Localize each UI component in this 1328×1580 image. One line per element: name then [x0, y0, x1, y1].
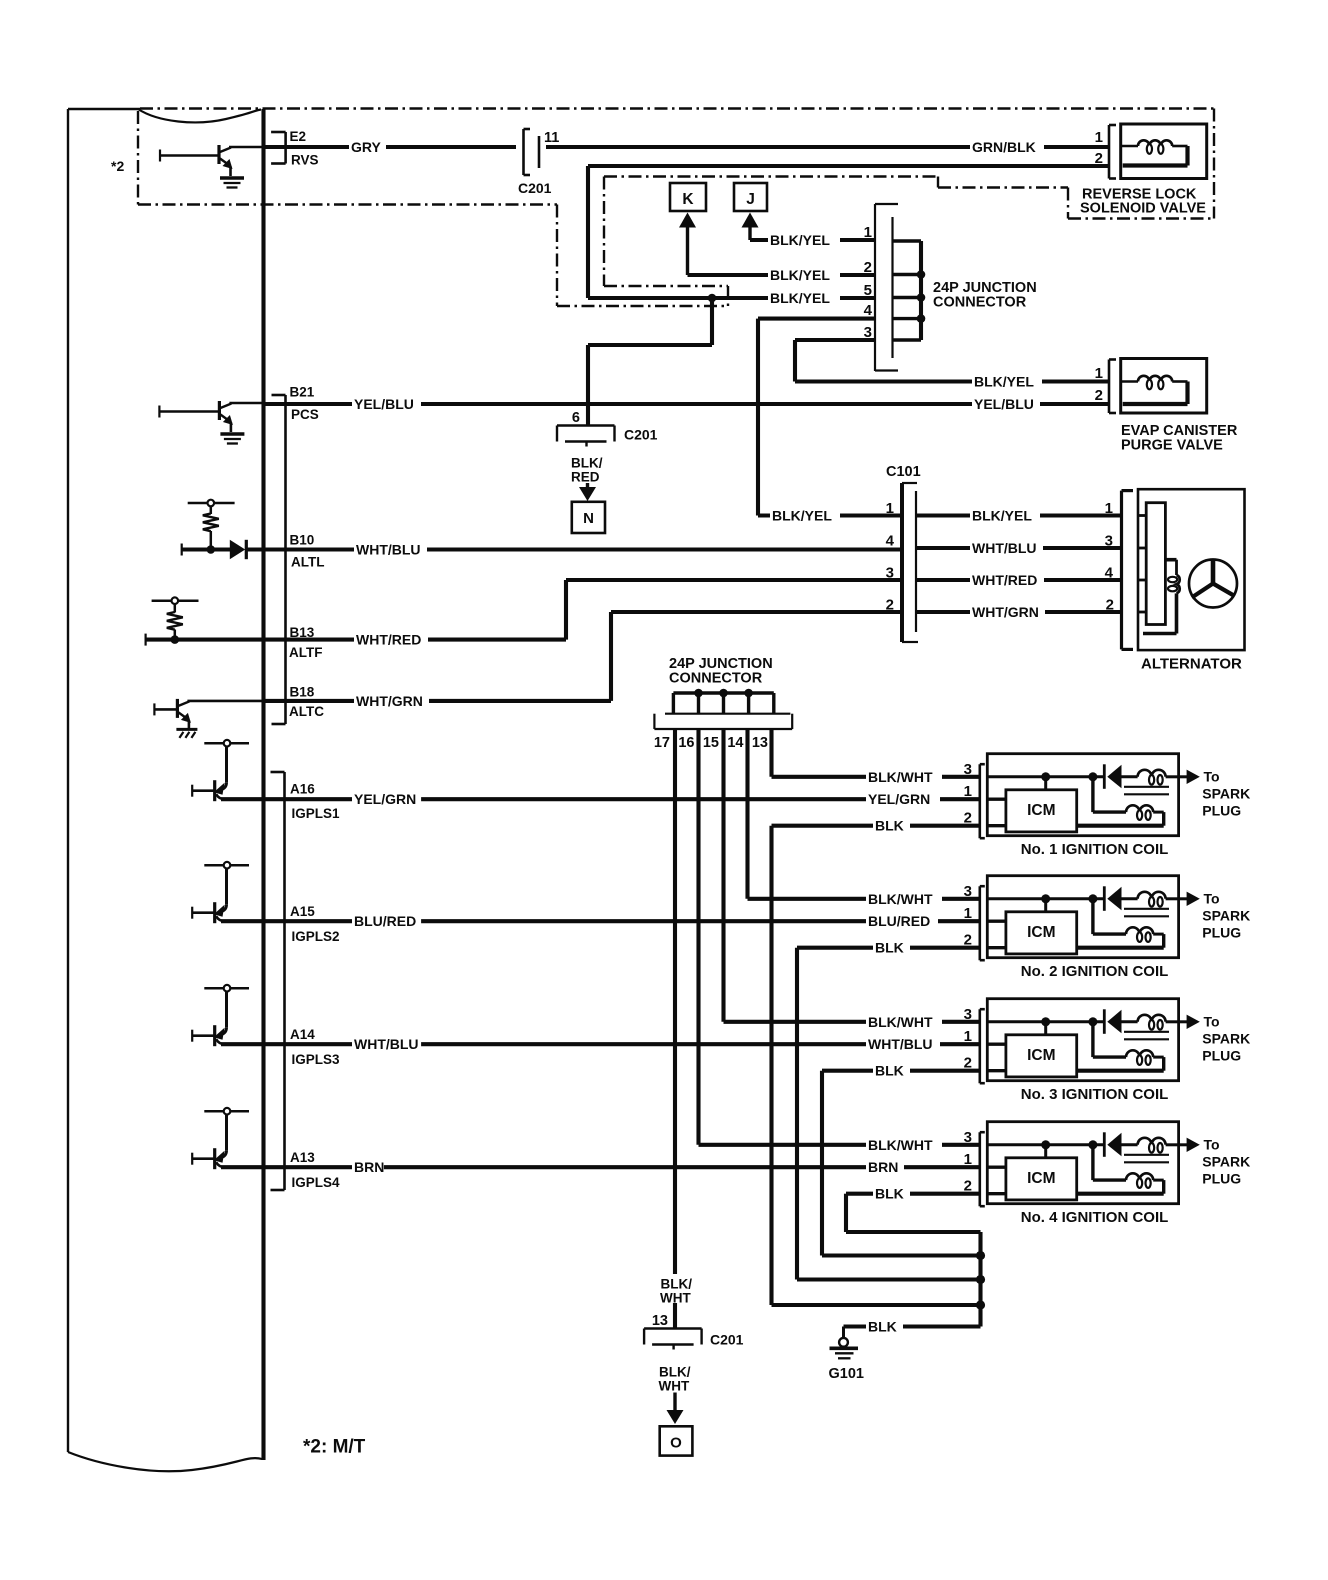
wire GRY / GRN-BLK row E2 to reverse lock solenoid pin 1 — [264, 145, 1110, 149]
svg-text:ICM: ICM — [1027, 1170, 1055, 1187]
dash-dot corridor inner: x=604 down — [603, 177, 605, 287]
resistor network B13/ALTF — [152, 597, 199, 639]
svg-text:PLUG: PLUG — [1202, 802, 1241, 818]
wire BLK coil 3 ground return — [822, 1071, 981, 1256]
svg-text:BLK/WHT: BLK/WHT — [868, 769, 933, 785]
svg-text:N: N — [583, 510, 594, 527]
svg-text:14: 14 — [727, 735, 743, 751]
ICM module coil 3 — [1006, 1035, 1077, 1077]
connector C201 pin 6 (inline) — [557, 426, 615, 447]
label BLU/RED coil 2 pin1 — [866, 912, 938, 930]
alternator rotor (3-spoke wye in circle) — [1189, 560, 1237, 608]
ICM module coil 4 — [1006, 1158, 1077, 1200]
label 24P JUNCTION CONNECTOR (top) — [933, 280, 1037, 311]
EVAP canister purge valve (inductor in box) — [1109, 359, 1207, 414]
label YEL/BLU (left) — [352, 395, 421, 413]
wire WHT/BLU B10 to C101 pin 4 — [182, 544, 902, 556]
ECM right edge (pin column) — [261, 109, 265, 1460]
svg-text:PCS: PCS — [291, 407, 319, 422]
svg-text:11: 11 — [544, 130, 559, 146]
svg-text:GRN/BLK: GRN/BLK — [972, 139, 1036, 155]
coil 3 secondary feed — [1093, 1022, 1126, 1057]
label WHT/BLU coil 3 pin1 — [866, 1035, 940, 1053]
svg-text:1: 1 — [964, 783, 972, 800]
svg-text:B21: B21 — [290, 385, 315, 400]
ECM pin group bracket A16-A13 — [283, 772, 286, 1190]
label BRN coil 4 pin1 — [866, 1158, 904, 1176]
svg-text:PLUG: PLUG — [1202, 1047, 1241, 1063]
label BLK/YEL (pin 2 row) — [768, 266, 840, 284]
svg-text:WHT/BLU: WHT/BLU — [356, 542, 421, 558]
svg-text:PURGE VALVE: PURGE VALVE — [1121, 438, 1223, 454]
label BRN — [352, 1158, 384, 1176]
svg-text:2: 2 — [886, 597, 894, 614]
pin label A15 IGPLS2 — [290, 904, 340, 944]
wire WHT/GRN B18 to C101 pin 2 — [264, 612, 903, 701]
transistor Q-B18 (ALTC driver) — [154, 699, 263, 738]
label BLK/YEL (EVAP pin 1) — [972, 373, 1042, 391]
coil 4 pin2 internal stub — [987, 1192, 1006, 1195]
wire 15 junction to No.3 coil pin 3 — [724, 729, 980, 1022]
arrow to terminal N — [586, 483, 589, 489]
svg-text:BLK/YEL: BLK/YEL — [770, 290, 830, 306]
svg-text:C101: C101 — [886, 464, 921, 480]
coil 1 node dot to secondary — [1088, 772, 1097, 781]
wire WHT/RED B13 to C101 pin 3 — [146, 580, 902, 646]
label YEL/GRN coil 1 pin1 — [866, 790, 940, 808]
label BLK/RED — [571, 456, 603, 485]
coil 4 primary winding L1 — [1122, 1138, 1179, 1153]
dash-dot corridor outer: x=557 down — [556, 205, 558, 307]
label BLK coil 1 — [873, 817, 910, 835]
label 24P JUNCTION CONNECTOR (middle) — [669, 656, 773, 687]
coil 2 pin2 internal stub — [987, 946, 1006, 949]
svg-text:No. 2 IGNITION COIL: No. 2 IGNITION COIL — [1021, 963, 1169, 980]
svg-text:13: 13 — [752, 735, 768, 751]
coil 3 pin1 internal stub — [987, 1042, 1006, 1045]
node dot B13 resistor to wire — [171, 635, 180, 644]
label YEL/GRN — [352, 790, 421, 808]
node dots BLK ground bus — [976, 1251, 985, 1310]
svg-text:1: 1 — [864, 224, 872, 241]
dash-dot M/T boundary: top edge — [140, 107, 1214, 109]
coil 2 node dot to ICM — [1041, 894, 1050, 903]
pin label B18 ALTC — [289, 685, 324, 720]
svg-text:C201: C201 — [710, 1332, 744, 1348]
label WHT/GRN (alt) — [970, 603, 1045, 621]
coil 1 primary winding L1 — [1122, 770, 1179, 785]
svg-text:RED: RED — [571, 470, 600, 485]
svg-text:BLK/: BLK/ — [659, 1365, 691, 1380]
wire junction pin 4 row to C101 pin 1 (BLK/YEL) — [758, 319, 902, 516]
svg-text:1: 1 — [964, 1028, 972, 1045]
svg-text:1: 1 — [886, 500, 894, 517]
svg-text:YEL/BLU: YEL/BLU — [354, 396, 414, 412]
svg-text:B13: B13 — [290, 625, 315, 640]
ECM pin labels E2/RVS — [271, 129, 318, 168]
label To SPARK PLUG coil 2 — [1202, 890, 1250, 940]
svg-text:IGPLS3: IGPLS3 — [292, 1052, 341, 1067]
arrow to spark plug coil 1 — [1179, 770, 1200, 784]
wire 14 junction to No.2 coil pin 3 — [748, 729, 980, 899]
ignition coil No.4 bracket — [978, 1132, 981, 1206]
dash-dot M/T boundary: line y=204 to corridor — [138, 203, 557, 205]
ICM module coil 2 — [1006, 912, 1077, 954]
wire 13 junction to No.1 coil pin 3 — [772, 729, 980, 777]
arrow to spark plug coil 4 — [1179, 1138, 1200, 1152]
coil 3 secondary winding L2 — [1077, 1050, 1164, 1070]
svg-text:3: 3 — [886, 565, 894, 582]
wire BLK coil 4 ground return — [846, 1194, 981, 1232]
label BLK/WHT above C201 pin 13 — [658, 1274, 700, 1306]
wire 17 junction to C201 pin 13 (BLK/WHT) — [673, 729, 677, 1329]
dash-dot solenoid region right edge x=1214 — [1213, 109, 1215, 219]
diode D coil 3 — [1104, 1009, 1121, 1034]
ignition coil No.2 bracket — [978, 886, 981, 960]
svg-text:B10: B10 — [290, 533, 315, 548]
svg-text:BLK/: BLK/ — [661, 1277, 693, 1292]
svg-text:BLK/WHT: BLK/WHT — [868, 1014, 933, 1030]
svg-text:ALTC: ALTC — [289, 704, 324, 719]
svg-text:BLK/YEL: BLK/YEL — [974, 374, 1034, 390]
24P junction connector (horizontal, middle) — [654, 693, 792, 729]
ignition coil No.1 box — [987, 754, 1178, 836]
wire BLK/YEL solenoid pin 2 return — [588, 166, 1109, 298]
label BLK/YEL (pin 5 row) — [768, 289, 840, 307]
svg-text:PLUG: PLUG — [1202, 1170, 1241, 1186]
wire YEL/BLU B21 to EVAP valve pin 2 — [264, 402, 1110, 406]
pin label A16 IGPLS1 — [290, 782, 340, 822]
ignition coil No.3 box — [987, 999, 1178, 1081]
svg-text:4: 4 — [886, 533, 895, 550]
label EVAP CANISTER PURGE VALVE — [1121, 423, 1238, 454]
svg-text:*2: M/T: *2: M/T — [303, 1437, 366, 1458]
junction connector 2 contact dots — [694, 689, 753, 698]
node junction dot pin5 branch — [708, 294, 717, 303]
24P junction connector (vertical, top) — [875, 204, 921, 371]
svg-text:3: 3 — [1105, 533, 1113, 550]
svg-text:17: 17 — [654, 735, 670, 751]
coil 1 secondary winding L2 — [1077, 805, 1164, 825]
wire BLK bus to ground G101 — [844, 1232, 981, 1338]
label WHT/RED (alt) — [970, 571, 1044, 589]
svg-text:BLK/WHT: BLK/WHT — [868, 1137, 933, 1153]
coil 3 primary winding L1 — [1122, 1015, 1179, 1030]
coil 1 node dot to ICM — [1041, 772, 1050, 781]
svg-text:SPARK: SPARK — [1202, 785, 1250, 801]
transistor Q-B21 (PCS driver) — [159, 401, 263, 444]
terminal box O — [660, 1426, 693, 1455]
coil 4 pin1 internal stub — [987, 1165, 1006, 1168]
wire YEL/GRN A16 to ignition coil pin 1 — [221, 797, 980, 801]
svg-text:6: 6 — [572, 410, 580, 426]
transistor Q-A15 (ignition pulse) — [192, 862, 249, 923]
label To SPARK PLUG coil 4 — [1202, 1136, 1250, 1186]
svg-text:15: 15 — [703, 735, 719, 751]
pin label B21 PCS — [290, 385, 319, 423]
connector C201 pin 11 (inline, on GRY wire) — [516, 127, 546, 177]
coil 4 ICM feed — [1044, 1145, 1047, 1158]
svg-text:BLU/RED: BLU/RED — [868, 913, 930, 929]
label BLK coil 4 — [873, 1185, 910, 1203]
svg-text:BLK: BLK — [868, 1319, 897, 1335]
svg-text:WHT/BLU: WHT/BLU — [972, 540, 1037, 556]
svg-text:C201: C201 — [624, 427, 658, 443]
svg-text:BRN: BRN — [868, 1159, 898, 1175]
svg-text:ALTL: ALTL — [291, 555, 325, 570]
pin label A14 IGPLS3 — [290, 1027, 340, 1067]
coil 2 primary winding L1 — [1122, 892, 1179, 907]
svg-text:ALTF: ALTF — [289, 645, 323, 660]
svg-text:B18: B18 — [290, 685, 315, 700]
svg-text:WHT: WHT — [659, 1379, 690, 1394]
svg-text:No. 4 IGNITION COIL: No. 4 IGNITION COIL — [1021, 1209, 1169, 1226]
svg-text:J: J — [746, 191, 755, 208]
dash-dot corridor outer: y=306 right — [557, 305, 728, 307]
wire BLK coil 2 ground return — [797, 948, 981, 1280]
label WHT/BLU (alt) — [970, 539, 1043, 557]
svg-text:2: 2 — [1095, 150, 1103, 167]
wire WHT/GRN C101 pin2 to alternator pin 2 — [916, 610, 1121, 614]
svg-text:CONNECTOR: CONNECTOR — [933, 295, 1027, 311]
svg-text:4: 4 — [864, 302, 873, 319]
label GRY — [349, 138, 386, 156]
coil 4 core lines — [1124, 1155, 1169, 1163]
svg-text:CONNECTOR: CONNECTOR — [669, 671, 763, 687]
reverse lock solenoid valve (inductor in box) — [1109, 124, 1207, 179]
label BLK (ground lead) — [866, 1318, 903, 1336]
svg-text:SPARK: SPARK — [1202, 907, 1250, 923]
svg-text:3: 3 — [964, 761, 972, 778]
wire BLK/YEL C101 pin1 to alternator pin 1 — [916, 513, 1121, 517]
wire BRN A13 to ignition coil pin 1 — [221, 1165, 980, 1169]
coil 1 pin1 internal stub — [987, 798, 1006, 801]
svg-text:A13: A13 — [290, 1150, 315, 1165]
transistor Q-A13 (ignition pulse) — [192, 1108, 249, 1169]
connector C201 pin 13 (inline) — [644, 1329, 702, 1350]
svg-text:BLK/WHT: BLK/WHT — [868, 891, 933, 907]
coil 4 pin3 internal rail to diode — [987, 1143, 1103, 1146]
svg-text:BLK/YEL: BLK/YEL — [772, 508, 832, 524]
coil 1 pin3 internal rail to diode — [987, 775, 1103, 778]
alternator assembly — [1122, 489, 1245, 650]
dash-dot solenoid label box bottom y=218.5 — [1068, 217, 1214, 219]
svg-text:SPARK: SPARK — [1202, 1030, 1250, 1046]
coil 2 secondary feed — [1093, 899, 1126, 934]
svg-text:BLK/YEL: BLK/YEL — [770, 267, 830, 283]
coil 3 node dot to secondary — [1088, 1017, 1097, 1026]
label WHT/RED (left) — [354, 631, 428, 649]
svg-text:BLK: BLK — [875, 1186, 904, 1202]
svg-text:3: 3 — [964, 1129, 972, 1146]
svg-text:*2: *2 — [111, 158, 124, 174]
diode D coil 1 — [1104, 764, 1121, 789]
svg-text:To: To — [1204, 1136, 1220, 1152]
transistor Q-A14 (ignition pulse) — [192, 985, 249, 1046]
resistor network B10/ALTL with diode D1 — [188, 500, 235, 550]
wire WHT/BLU A14 to ignition coil pin 1 — [221, 1042, 980, 1046]
label WHT/GRN (left) — [354, 692, 429, 710]
node dot B10 resistor to wire — [207, 545, 216, 554]
pin label A13 IGPLS4 — [290, 1150, 340, 1190]
wire WHT/BLU C101 pin4 to alternator pin 3 — [916, 546, 1121, 550]
coil 3 ICM feed — [1044, 1022, 1047, 1035]
svg-text:BRN: BRN — [354, 1159, 384, 1175]
svg-text:3: 3 — [964, 883, 972, 900]
label BLK/YEL (pin 1 row) — [768, 231, 840, 249]
coil 2 pin1 internal stub — [987, 920, 1006, 923]
svg-text:K: K — [682, 191, 694, 208]
wire 16 junction to No.4 coil pin 3 — [699, 729, 980, 1145]
svg-text:A14: A14 — [290, 1027, 315, 1042]
coil 2 secondary winding L2 — [1077, 927, 1164, 947]
ICM module coil 1 — [1006, 790, 1077, 832]
svg-text:2: 2 — [1095, 387, 1103, 404]
svg-text:BLK: BLK — [875, 818, 904, 834]
wire BLK coil 1 ground return — [772, 826, 981, 1305]
coil 3 pin2 internal stub — [987, 1069, 1006, 1072]
svg-text:WHT: WHT — [660, 1291, 691, 1306]
ground symbol G101 — [830, 1338, 859, 1358]
coil 3 pin3 internal rail to diode — [987, 1020, 1103, 1023]
coil 1 core lines — [1124, 787, 1169, 795]
svg-text:WHT/GRN: WHT/GRN — [972, 604, 1039, 620]
junction connector contact dots — [917, 270, 926, 323]
ignition coil No.4 box — [987, 1122, 1178, 1204]
svg-text:A15: A15 — [290, 904, 315, 919]
svg-text:3: 3 — [864, 324, 872, 341]
svg-text:3: 3 — [964, 1006, 972, 1023]
svg-text:E2: E2 — [290, 129, 307, 144]
coil 2 node dot to secondary — [1088, 894, 1097, 903]
label GRN/BLK — [970, 138, 1044, 156]
svg-text:RVS: RVS — [291, 153, 319, 168]
svg-text:ALTERNATOR: ALTERNATOR — [1141, 656, 1242, 673]
label REVERSE LOCK SOLENOID VALVE — [1080, 187, 1206, 217]
svg-text:4: 4 — [1105, 565, 1114, 582]
svg-text:BLK: BLK — [875, 1063, 904, 1079]
label WHT/BLU — [352, 1035, 421, 1053]
svg-text:WHT/RED: WHT/RED — [972, 572, 1037, 588]
svg-text:SOLENOID VALVE: SOLENOID VALVE — [1080, 201, 1206, 217]
svg-text:YEL/BLU: YEL/BLU — [974, 396, 1034, 412]
svg-text:2: 2 — [1106, 597, 1114, 614]
label BLK/WHT coil 1 feed — [866, 768, 942, 786]
label BLK/YEL (C101 left) — [770, 507, 840, 525]
coil 4 node dot to secondary — [1088, 1140, 1097, 1149]
label BLK coil 2 — [873, 939, 910, 957]
arrow to spark plug coil 2 — [1179, 892, 1200, 906]
svg-text:O: O — [670, 1435, 682, 1452]
connector C101 (inline, vertical) — [902, 483, 918, 642]
svg-text:WHT/BLU: WHT/BLU — [354, 1036, 419, 1052]
svg-text:BLU/RED: BLU/RED — [354, 913, 416, 929]
svg-text:13: 13 — [652, 1313, 668, 1329]
coil 4 secondary winding L2 — [1077, 1173, 1164, 1193]
svg-text:16: 16 — [678, 735, 694, 751]
svg-text:A16: A16 — [290, 782, 315, 797]
svg-text:IGPLS2: IGPLS2 — [292, 929, 340, 944]
svg-text:IGPLS4: IGPLS4 — [292, 1175, 341, 1190]
dash-dot solenoid region: y=187.5 right — [938, 186, 1068, 188]
svg-text:No. 3 IGNITION COIL: No. 3 IGNITION COIL — [1021, 1086, 1169, 1103]
svg-text:WHT/BLU: WHT/BLU — [868, 1036, 933, 1052]
coil 1 pin2 internal stub — [987, 824, 1006, 827]
svg-text:BLK/YEL: BLK/YEL — [770, 232, 830, 248]
svg-text:To: To — [1204, 890, 1220, 906]
box J (connector view ref) — [734, 183, 767, 211]
svg-text:ICM: ICM — [1027, 802, 1055, 819]
coil 3 node dot to ICM — [1041, 1017, 1050, 1026]
coil 4 node dot to ICM — [1041, 1140, 1050, 1149]
svg-text:2: 2 — [864, 259, 872, 276]
ECM pin group bracket B21-B18 — [284, 395, 287, 724]
label YEL/BLU (right) — [972, 395, 1040, 413]
svg-text:PLUG: PLUG — [1202, 924, 1241, 940]
coil 3 core lines — [1124, 1032, 1169, 1040]
diode D1 (B10 line) — [230, 540, 247, 559]
diode D coil 2 — [1104, 886, 1121, 911]
coil 1 secondary feed — [1093, 777, 1126, 812]
dash-dot solenoid label box left x=1068 — [1067, 188, 1069, 219]
pin label B10 ALTL — [290, 533, 325, 570]
coil 2 pin3 internal rail to diode — [987, 897, 1103, 900]
wire WHT/RED C101 pin3 to alternator pin 4 — [916, 578, 1121, 582]
svg-text:WHT/RED: WHT/RED — [356, 632, 421, 648]
svg-text:YEL/GRN: YEL/GRN — [868, 791, 930, 807]
label BLK/WHT coil 2 feed — [866, 890, 942, 908]
ECM block outline (torn-edge box, left) — [68, 109, 262, 1471]
svg-text:ICM: ICM — [1027, 924, 1055, 941]
svg-text:BLK/: BLK/ — [571, 456, 603, 471]
coil 1 ICM feed — [1044, 777, 1047, 790]
svg-text:G101: G101 — [829, 1366, 864, 1382]
dash-dot corridor right cap x=728 — [727, 286, 729, 306]
svg-text:1: 1 — [964, 1151, 972, 1168]
wire BLK/YEL junction pin 2 row to K (arrow up) — [679, 213, 875, 276]
label BLU/RED — [352, 912, 421, 930]
dash-dot corridor inner: y=176.5 — [604, 175, 937, 177]
svg-text:No. 1 IGNITION COIL: No. 1 IGNITION COIL — [1021, 841, 1169, 858]
svg-text:C201: C201 — [518, 180, 552, 196]
coil 4 secondary feed — [1093, 1145, 1126, 1180]
dash-dot M/T boundary: *2 box left edge — [137, 111, 139, 205]
label BLK/WHT below C201 pin 13 — [659, 1365, 691, 1394]
svg-text:1: 1 — [1095, 129, 1103, 146]
svg-text:BLK/YEL: BLK/YEL — [972, 508, 1032, 524]
arrow to terminal O — [673, 1393, 676, 1413]
svg-text:To: To — [1204, 768, 1220, 784]
wire BLU/RED A15 to ignition coil pin 1 — [221, 919, 980, 923]
transistor Q-A16 (ignition pulse) — [192, 740, 249, 801]
label BLK/WHT coil 4 feed — [866, 1136, 942, 1154]
dash-dot solenoid region: jog down at x=938 — [937, 177, 939, 188]
ignition coil No.3 bracket — [978, 1009, 981, 1083]
svg-text:1: 1 — [1095, 365, 1103, 382]
svg-text:SPARK: SPARK — [1202, 1153, 1250, 1169]
label To SPARK PLUG coil 3 — [1202, 1013, 1250, 1063]
label WHT/BLU (left) — [354, 541, 427, 559]
ignition coil No.1 bracket — [978, 764, 981, 838]
svg-text:ICM: ICM — [1027, 1047, 1055, 1064]
svg-text:YEL/GRN: YEL/GRN — [354, 791, 416, 807]
label To SPARK PLUG coil 1 — [1202, 768, 1250, 818]
ignition coil No.2 box — [987, 876, 1178, 958]
coil 2 core lines — [1124, 909, 1169, 917]
svg-text:BLK: BLK — [875, 940, 904, 956]
wire junction pin 3 row to EVAP valve pin 1 (BLK/YEL) — [795, 340, 1109, 382]
svg-text:1: 1 — [964, 905, 972, 922]
